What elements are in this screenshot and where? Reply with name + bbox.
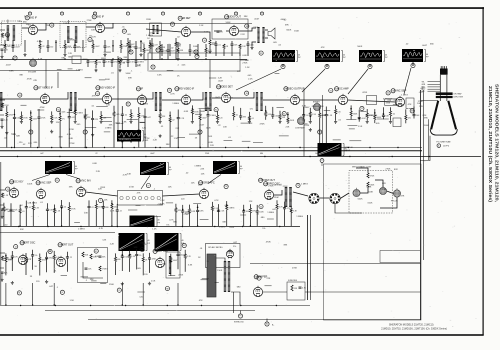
svg-text:62: 62 <box>171 24 173 26</box>
wire <box>32 250 34 255</box>
svg-text:150K: 150K <box>109 284 115 286</box>
designator 11 <box>14 245 18 249</box>
capacitor C31 <box>10 209 13 210</box>
wire <box>197 212 199 227</box>
ground <box>23 53 26 56</box>
wire <box>321 95 323 143</box>
wire <box>95 65 97 69</box>
svg-text:270K: 270K <box>178 275 184 277</box>
wire <box>265 106 267 112</box>
wire <box>404 68 411 94</box>
junction <box>279 147 280 148</box>
wire <box>1 120 3 125</box>
svg-text:10K: 10K <box>106 105 110 107</box>
wire <box>32 175 50 181</box>
svg-text:p-p: p-p <box>240 168 243 170</box>
resistor R121 <box>205 48 207 53</box>
junction <box>348 147 349 148</box>
wire <box>191 32 210 40</box>
svg-text:.01: .01 <box>22 211 25 213</box>
ground <box>121 139 124 142</box>
block keyed agc loop <box>148 53 240 71</box>
wire <box>320 197 329 199</box>
wire <box>290 213 292 226</box>
wire <box>30 110 32 116</box>
wire <box>53 251 55 255</box>
svg-text:9: 9 <box>100 200 101 202</box>
svg-text:INTERLOCK: INTERLOCK <box>234 322 245 324</box>
svg-text:V32: V32 <box>58 245 61 247</box>
wire <box>88 200 90 206</box>
wire <box>247 45 249 56</box>
designator 68 <box>410 109 414 113</box>
wire <box>159 41 161 45</box>
svg-text:220K: 220K <box>100 187 106 189</box>
ground <box>0 55 3 58</box>
wire <box>104 51 111 53</box>
svg-text:22K: 22K <box>175 128 179 130</box>
wire <box>38 118 40 147</box>
svg-text:21MD10, 21MT10, 21MD10U, 21MT1: 21MD10, 21MT10, 21MD10U, 21MT10U (Ch. 53… <box>381 328 447 331</box>
resistor R414 <box>170 258 172 263</box>
svg-text:2ND VIDEO IF: 2ND VIDEO IF <box>99 87 116 90</box>
svg-text:1 MEG: 1 MEG <box>301 184 308 186</box>
waveform photo W7 <box>45 161 72 174</box>
designator 61 <box>140 248 144 252</box>
resistor R212 <box>113 112 115 117</box>
svg-text:SYNC SEP: SYNC SEP <box>39 182 52 185</box>
svg-text:39K: 39K <box>285 24 289 26</box>
svg-text:65: 65 <box>95 251 97 253</box>
junction <box>54 208 56 210</box>
wire <box>263 291 287 293</box>
junction <box>104 156 105 157</box>
resistor R314 <box>175 208 177 213</box>
waveform photo W10 <box>130 216 155 228</box>
wire <box>377 118 389 120</box>
designator S2 <box>265 322 269 326</box>
svg-text:1.5K: 1.5K <box>152 228 157 230</box>
wire <box>54 213 56 226</box>
wire <box>19 205 21 209</box>
wire <box>205 44 207 48</box>
svg-text:39K: 39K <box>244 16 248 18</box>
svg-text:1 MEG: 1 MEG <box>172 103 179 105</box>
svg-text:270K: 270K <box>70 143 76 145</box>
svg-text:p-p: p-p <box>298 57 301 59</box>
wire <box>3 203 5 207</box>
capacitor Cb <box>103 61 106 62</box>
svg-text:4.7K: 4.7K <box>38 58 43 60</box>
resistor R326 <box>290 209 292 214</box>
svg-text:560K: 560K <box>366 186 372 188</box>
junction <box>358 118 360 120</box>
wire <box>149 40 151 44</box>
wire <box>217 204 219 210</box>
picture tube funnel <box>431 101 438 130</box>
wire <box>0 147 422 149</box>
junction <box>182 156 183 157</box>
designator M7 <box>156 48 160 52</box>
svg-text:1 MEG: 1 MEG <box>146 35 153 37</box>
wire <box>209 45 211 50</box>
coil winding <box>285 187 288 207</box>
junction <box>55 42 57 44</box>
wire <box>129 258 131 272</box>
svg-text:2.2K: 2.2K <box>218 78 223 80</box>
svg-text:.0047: .0047 <box>150 153 155 155</box>
capacitor C319 <box>217 210 220 211</box>
wire <box>138 107 140 113</box>
wire <box>159 110 161 114</box>
capacitor C228 <box>271 115 274 116</box>
svg-text:68: 68 <box>49 251 51 253</box>
wire <box>369 64 371 67</box>
svg-text:39K: 39K <box>69 38 73 40</box>
svg-text:p-p: p-p <box>75 168 78 170</box>
block phase det <box>393 118 401 127</box>
svg-text:AGC KEY: AGC KEY <box>12 181 23 184</box>
svg-text:1 MEG: 1 MEG <box>267 212 274 214</box>
svg-text:5%: 5% <box>262 228 265 230</box>
ground <box>129 139 132 142</box>
capacitor C1m1 <box>135 47 138 48</box>
resistor R10 <box>4 44 6 49</box>
svg-text:1 MEG: 1 MEG <box>142 104 149 106</box>
tube V32 12B4 <box>56 256 65 267</box>
designator V12 <box>175 87 179 91</box>
designator 27 <box>13 56 17 60</box>
wire <box>111 62 113 67</box>
wire <box>215 41 217 44</box>
svg-text:33K: 33K <box>222 222 226 224</box>
coil winding <box>257 27 259 43</box>
block vert output <box>78 248 108 283</box>
svg-text:V22: V22 <box>76 181 79 183</box>
resistor R220 <box>191 109 193 114</box>
wire <box>375 180 383 187</box>
svg-text:220K: 220K <box>4 105 9 107</box>
svg-text:6: 6 <box>30 13 31 15</box>
potentiometer FOCUS <box>393 190 400 197</box>
svg-text:1ST VIDEO IF: 1ST VIDEO IF <box>37 87 53 90</box>
junction <box>374 112 376 114</box>
wire <box>161 51 163 56</box>
wire <box>413 107 415 115</box>
wire <box>39 40 41 44</box>
resistor R238 <box>366 113 368 118</box>
svg-text:2.2K: 2.2K <box>203 98 208 100</box>
picture tube neck <box>440 75 447 101</box>
svg-text:1 MEG: 1 MEG <box>30 202 37 204</box>
svg-text:12K: 12K <box>27 203 31 205</box>
svg-text:560K: 560K <box>353 114 358 116</box>
waveform photo W3 <box>359 50 382 62</box>
wire <box>137 291 145 293</box>
svg-text:8: 8 <box>200 13 201 15</box>
wire <box>266 319 268 322</box>
wire <box>74 106 76 110</box>
ground <box>309 120 312 123</box>
wire <box>162 99 181 101</box>
wire <box>153 215 161 217</box>
wire <box>163 194 200 196</box>
junction <box>18 226 19 227</box>
wire <box>189 133 200 135</box>
wire <box>84 109 86 115</box>
wire <box>39 41 42 43</box>
designator 29 <box>167 88 171 92</box>
wire <box>0 44 4 46</box>
wire <box>191 114 193 120</box>
wire <box>4 49 6 54</box>
svg-text:.0047: .0047 <box>227 97 233 99</box>
svg-text:12K: 12K <box>419 106 423 108</box>
junction <box>60 147 61 148</box>
wire <box>83 58 88 60</box>
pin lead <box>428 86 441 88</box>
junction <box>276 305 277 306</box>
resistor R310 <box>95 204 97 209</box>
svg-text:1 MEG: 1 MEG <box>76 69 83 71</box>
svg-text:p-p: p-p <box>169 169 172 171</box>
junction <box>134 147 135 148</box>
resistor R30 <box>3 207 5 212</box>
svg-text:47K: 47K <box>401 196 405 198</box>
wire <box>13 109 15 117</box>
wire <box>405 109 407 115</box>
svg-text:3.3K: 3.3K <box>183 103 188 105</box>
ground <box>100 120 103 123</box>
svg-text:SND IF: SND IF <box>29 17 38 20</box>
delay line DL1 <box>118 191 163 206</box>
junction <box>117 226 118 227</box>
resistor R1m0 <box>127 42 129 47</box>
wire <box>116 204 118 210</box>
junction <box>249 118 251 120</box>
coil winding <box>169 256 171 274</box>
svg-text:2.2K: 2.2K <box>160 200 165 202</box>
wire <box>39 262 41 276</box>
wire <box>102 208 104 226</box>
junction <box>111 225 112 226</box>
wire <box>129 40 131 46</box>
svg-text:14: 14 <box>203 40 205 42</box>
wire <box>240 59 247 62</box>
wire <box>175 47 177 60</box>
svg-text:.22: .22 <box>95 153 98 155</box>
wire <box>340 193 349 199</box>
junction <box>392 156 393 157</box>
svg-text:55: 55 <box>260 206 262 208</box>
svg-text:82K: 82K <box>423 115 427 117</box>
wire <box>30 121 32 148</box>
svg-text:1 MEG: 1 MEG <box>194 166 201 168</box>
svg-text:18: 18 <box>123 31 125 33</box>
svg-text:.02: .02 <box>124 115 127 117</box>
wire <box>32 256 34 270</box>
capacitor C47 <box>66 257 69 258</box>
svg-text:.0047: .0047 <box>115 123 121 125</box>
capacitor C21 <box>13 117 16 118</box>
svg-text:9: 9 <box>258 278 259 280</box>
svg-text:21: 21 <box>89 39 91 41</box>
wire <box>24 40 26 52</box>
svg-text:V11: V11 <box>96 88 99 90</box>
capacitor C1n4 <box>247 44 250 45</box>
wire <box>102 201 104 207</box>
deflection yoke <box>436 92 453 95</box>
capacitor C225 <box>239 116 242 117</box>
svg-text:4.7K: 4.7K <box>37 41 42 43</box>
wire <box>143 44 145 48</box>
svg-text:.0047: .0047 <box>199 125 205 127</box>
ground <box>50 120 53 123</box>
wire <box>127 38 129 42</box>
wire <box>350 105 352 111</box>
wire <box>282 64 284 67</box>
block HV cage <box>206 244 241 268</box>
wire <box>85 77 92 79</box>
wire <box>335 105 337 109</box>
wire <box>211 210 213 226</box>
capacitor C14 <box>47 46 50 47</box>
wire <box>21 104 27 106</box>
wire <box>326 64 328 67</box>
svg-text:.02: .02 <box>138 47 141 49</box>
tube V23 6SN7 <box>199 188 208 199</box>
resistor Re <box>1 193 3 198</box>
junction <box>4 45 6 47</box>
designator A <box>437 144 441 148</box>
svg-text:77: 77 <box>321 160 323 162</box>
wire <box>138 118 140 148</box>
svg-text:5%: 5% <box>139 255 142 257</box>
wire <box>205 53 207 58</box>
designator V4 <box>225 15 229 19</box>
svg-text:1.5K: 1.5K <box>199 25 204 27</box>
ground <box>91 133 94 136</box>
svg-text:5%: 5% <box>62 118 65 120</box>
svg-text:33K: 33K <box>134 247 138 249</box>
wire <box>199 109 201 115</box>
junction <box>30 112 32 114</box>
designator V14 <box>284 87 288 91</box>
tube V11 4BZ6 <box>102 93 111 104</box>
wire <box>182 212 184 226</box>
ground <box>45 280 48 283</box>
svg-text:8: 8 <box>262 13 263 15</box>
junction <box>51 147 52 148</box>
wire <box>74 40 76 46</box>
svg-text:5%: 5% <box>208 109 211 111</box>
capacitor C411 <box>135 254 138 255</box>
wire <box>209 60 211 89</box>
resistor R410 <box>129 254 131 259</box>
designator V23 <box>199 181 203 185</box>
capacitor C coup <box>217 31 220 32</box>
svg-text:31: 31 <box>127 104 129 106</box>
svg-text:270K: 270K <box>292 268 298 270</box>
wire <box>39 254 41 258</box>
wire <box>248 119 250 121</box>
wire <box>393 104 404 106</box>
wire <box>240 311 242 314</box>
wire <box>115 262 117 276</box>
junction <box>350 108 352 110</box>
resistor R42 <box>25 257 27 262</box>
ground <box>216 120 219 123</box>
svg-text:SYNC INV: SYNC INV <box>79 180 91 183</box>
ground <box>103 53 106 56</box>
wire <box>99 79 105 81</box>
junction <box>170 261 172 263</box>
junction <box>55 305 56 306</box>
wire <box>0 267 4 269</box>
wire <box>0 98 40 100</box>
junction <box>59 156 60 157</box>
wire <box>263 99 290 101</box>
svg-text:220K: 220K <box>146 19 152 21</box>
svg-text:6.8K: 6.8K <box>243 55 248 57</box>
ground <box>5 131 8 134</box>
svg-text:12K: 12K <box>68 53 72 55</box>
svg-text:6.8K: 6.8K <box>267 198 272 200</box>
wire <box>167 69 174 71</box>
designator 74 <box>296 183 300 187</box>
designator 88 <box>165 287 169 291</box>
svg-text:.01: .01 <box>28 207 31 209</box>
wire <box>177 53 179 58</box>
wire <box>177 44 179 48</box>
wire <box>0 23 252 25</box>
wire <box>50 92 68 99</box>
junction <box>46 258 48 260</box>
resistor R217 <box>159 114 161 119</box>
wire <box>53 283 55 305</box>
wire <box>111 60 113 62</box>
wire <box>279 135 289 137</box>
svg-text:12K: 12K <box>104 200 108 202</box>
svg-text:97: 97 <box>61 292 63 294</box>
wire <box>66 258 68 272</box>
wire <box>66 175 80 180</box>
coil winding <box>159 92 161 111</box>
svg-text:22K: 22K <box>237 71 241 73</box>
wire <box>1 210 3 215</box>
svg-text:1 MEG: 1 MEG <box>105 127 112 129</box>
wire <box>360 187 368 193</box>
svg-text:470K: 470K <box>260 123 266 125</box>
coil winding <box>289 187 292 207</box>
svg-text:3.2 p-p: 3.2 p-p <box>345 149 351 151</box>
svg-text:.005: .005 <box>116 114 120 116</box>
svg-text:81: 81 <box>319 132 321 134</box>
capacitor Cb <box>127 61 130 62</box>
designator 55 <box>259 205 263 209</box>
capacitor C240 <box>382 115 385 116</box>
wire <box>55 40 57 52</box>
wire <box>68 68 73 70</box>
designator 11 <box>83 130 87 134</box>
ground <box>148 282 151 285</box>
svg-text:88: 88 <box>166 288 168 290</box>
designator F1 <box>238 314 242 318</box>
wire <box>39 49 41 54</box>
wire <box>201 279 208 281</box>
junction <box>14 114 16 116</box>
svg-text:7: 7 <box>128 13 129 15</box>
